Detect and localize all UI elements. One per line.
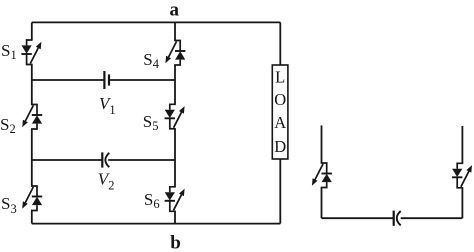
- load box with vertical LOAD lettering: [272, 65, 288, 159]
- battery V1: [104, 71, 109, 89]
- wire V2 row left of capacitor: [32, 159, 102, 161]
- wire V1 row right of battery: [109, 79, 175, 81]
- svg-text:b: b: [170, 232, 181, 252]
- wire load branch: load to bottom bus: [279, 159, 281, 224]
- sub-circuit capacitor: [394, 211, 401, 226]
- wire top bus from left leg to load branch (node a): [32, 21, 280, 23]
- svg-text:V1: V1: [99, 94, 116, 117]
- sub-circuit switch right: [452, 163, 472, 188]
- wire bottom bus from left leg to load branch (node b): [32, 223, 280, 225]
- svg-text:S3: S3: [1, 194, 17, 216]
- wire sub-circuit left leg upper stub: [321, 125, 323, 163]
- sub-circuit switch left: [312, 163, 332, 188]
- svg-text:S4: S4: [143, 50, 159, 71]
- svg-text:A: A: [274, 113, 286, 132]
- wire sub-circuit bottom left of capacitor: [322, 217, 394, 219]
- svg-text:a: a: [170, 0, 180, 20]
- wire middle leg: S5 to S6: [174, 129, 176, 187]
- svg-text:S1: S1: [1, 41, 17, 62]
- wire left leg: S3 to bottom bus: [31, 211, 33, 224]
- svg-text:O: O: [274, 90, 286, 109]
- svg-text:S6: S6: [144, 190, 160, 211]
- svg-text:D: D: [274, 137, 286, 156]
- wire left leg: top bus to S1: [31, 22, 33, 40]
- wire sub-circuit right leg upper stub: [461, 126, 463, 163]
- wire V1 row left of battery: [32, 79, 104, 81]
- wire middle leg: S6 to bottom bus: [174, 211, 176, 223]
- switch S6: [165, 187, 185, 212]
- wire left leg: S2 to S3 through V2 tap: [31, 129, 33, 186]
- wire sub-circuit right leg to bottom wire: [461, 188, 463, 218]
- svg-text:V2: V2: [98, 169, 115, 192]
- svg-text:S2: S2: [0, 115, 16, 136]
- switch S3: [22, 186, 42, 211]
- wire sub-circuit left leg to bottom wire: [321, 188, 323, 219]
- capacitor V2: [102, 152, 109, 167]
- wire middle leg: top bus to S4: [174, 22, 176, 40]
- switch S1: [21, 40, 41, 65]
- wire load branch: top bus to load: [279, 22, 281, 65]
- switch S4: [165, 41, 185, 66]
- switch S2: [22, 105, 42, 130]
- svg-text:S5: S5: [143, 112, 159, 133]
- svg-text:L: L: [275, 67, 285, 86]
- wire left leg: S1 to S2 through V1 tap: [31, 65, 33, 105]
- switch S5: [165, 104, 185, 129]
- wire V2 row right of capacitor: [108, 159, 175, 161]
- wire sub-circuit bottom right of capacitor: [401, 217, 463, 219]
- wire middle leg: S4 to S5: [174, 65, 176, 104]
